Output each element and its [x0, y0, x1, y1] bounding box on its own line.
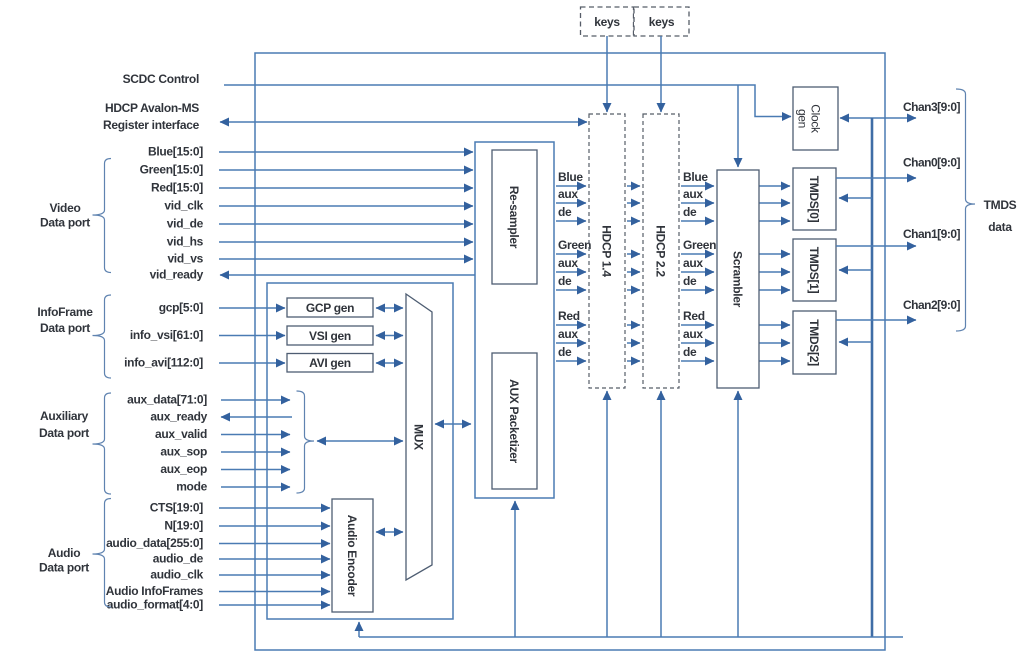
svg-text:aux_valid: aux_valid [155, 427, 207, 441]
svg-text:gcp[5:0]: gcp[5:0] [159, 301, 204, 315]
svg-text:Audio: Audio [48, 546, 81, 560]
svg-text:de: de [558, 205, 572, 219]
svg-text:vid_hs: vid_hs [167, 235, 204, 249]
svg-text:Data port: Data port [39, 426, 89, 440]
svg-text:aux_sop: aux_sop [160, 445, 207, 459]
svg-text:vid_de: vid_de [167, 217, 204, 231]
svg-text:de: de [558, 274, 572, 288]
svg-text:de: de [683, 274, 697, 288]
svg-text:aux: aux [558, 187, 578, 201]
svg-text:aux: aux [683, 256, 703, 270]
svg-text:Green: Green [558, 238, 591, 252]
svg-text:CTS[19:0]: CTS[19:0] [150, 501, 204, 515]
svg-text:Blue[15:0]: Blue[15:0] [148, 145, 203, 159]
svg-text:data: data [988, 220, 1012, 234]
svg-text:Audio InfoFrames: Audio InfoFrames [106, 584, 204, 598]
svg-text:Data port: Data port [39, 561, 89, 575]
svg-text:de: de [683, 205, 697, 219]
svg-text:HDCP Avalon-MS: HDCP Avalon-MS [105, 101, 199, 115]
svg-text:TMDS[2]: TMDS[2] [807, 319, 821, 366]
svg-text:Chan1[9:0]: Chan1[9:0] [903, 227, 961, 241]
svg-text:aux: aux [683, 327, 703, 341]
svg-text:Register interface: Register interface [103, 118, 200, 132]
svg-text:audio_de: audio_de [153, 552, 204, 566]
svg-text:keys: keys [594, 15, 620, 29]
svg-text:keys: keys [649, 15, 675, 29]
svg-text:HDCP 2.2: HDCP 2.2 [654, 225, 668, 277]
svg-text:Video: Video [50, 201, 81, 215]
svg-text:GCP gen: GCP gen [306, 301, 354, 315]
svg-text:vid_vs: vid_vs [167, 252, 203, 266]
svg-text:Red: Red [558, 309, 580, 323]
svg-text:HDCP 1.4: HDCP 1.4 [600, 225, 614, 277]
svg-text:audio_data[255:0]: audio_data[255:0] [106, 536, 203, 550]
svg-text:SCDC Control: SCDC Control [123, 72, 199, 86]
svg-text:de: de [683, 345, 697, 359]
svg-text:VSI gen: VSI gen [309, 329, 351, 343]
svg-text:aux_data[71:0]: aux_data[71:0] [127, 393, 207, 407]
svg-text:Red[15:0]: Red[15:0] [151, 181, 203, 195]
svg-text:aux: aux [558, 327, 578, 341]
svg-text:TMDS: TMDS [984, 198, 1017, 212]
svg-text:info_vsi[61:0]: info_vsi[61:0] [130, 328, 203, 342]
svg-text:audio_clk: audio_clk [150, 568, 203, 582]
svg-text:mode: mode [176, 480, 207, 494]
svg-text:Green[15:0]: Green[15:0] [140, 163, 204, 177]
svg-text:Blue: Blue [683, 170, 708, 184]
svg-text:Red: Red [683, 309, 705, 323]
svg-text:TMDS[0]: TMDS[0] [807, 176, 821, 223]
svg-text:Blue: Blue [558, 170, 583, 184]
svg-text:Scrambler: Scrambler [731, 251, 745, 308]
svg-text:audio_format[4:0]: audio_format[4:0] [107, 598, 204, 612]
svg-text:AVI gen: AVI gen [309, 356, 351, 370]
svg-text:Auxiliary: Auxiliary [40, 409, 89, 423]
svg-text:Data port: Data port [40, 321, 90, 335]
svg-text:vid_clk: vid_clk [164, 199, 203, 213]
svg-text:info_avi[112:0]: info_avi[112:0] [124, 356, 203, 370]
svg-text:aux: aux [558, 256, 578, 270]
svg-text:vid_ready: vid_ready [150, 268, 204, 282]
svg-text:aux_eop: aux_eop [160, 462, 207, 476]
svg-text:aux: aux [683, 187, 703, 201]
svg-text:AUX Packetizer: AUX Packetizer [507, 379, 521, 463]
svg-text:InfoFrame: InfoFrame [37, 305, 93, 319]
svg-text:Re-sampler: Re-sampler [507, 186, 521, 249]
svg-text:N[19:0]: N[19:0] [164, 519, 203, 533]
svg-text:Green: Green [683, 238, 716, 252]
svg-text:TMDS[1]: TMDS[1] [807, 247, 821, 294]
svg-text:de: de [558, 345, 572, 359]
svg-text:Data port: Data port [40, 216, 90, 230]
svg-text:MUX: MUX [412, 424, 426, 450]
svg-text:Chan3[9:0]: Chan3[9:0] [903, 100, 961, 114]
svg-text:aux_ready: aux_ready [150, 410, 207, 424]
svg-text:Audio Encoder: Audio Encoder [345, 515, 359, 597]
svg-text:Chan0[9:0]: Chan0[9:0] [903, 156, 961, 170]
svg-text:Chan2[9:0]: Chan2[9:0] [903, 298, 961, 312]
